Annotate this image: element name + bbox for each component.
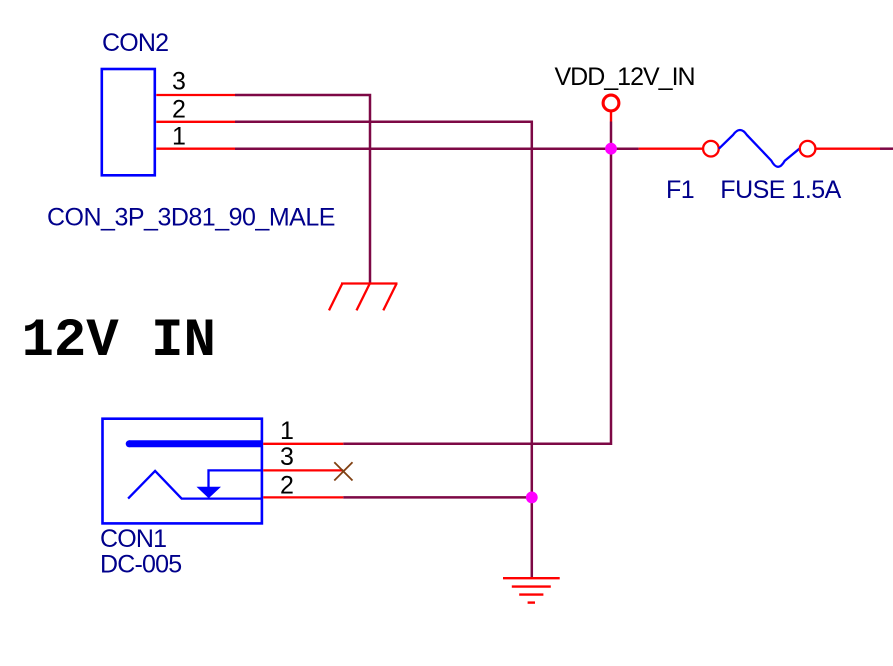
CON1 pin 2 stub: [263, 496, 343, 498]
svg-text:1: 1: [172, 123, 186, 151]
CON1 barrel contact zigzag (pin 2): [128, 471, 263, 499]
svg-text:2: 2: [172, 96, 186, 124]
svg-text:CON2: CON2: [102, 29, 168, 57]
CON1 pin 3 stub: [263, 469, 343, 471]
CON2 pin 3 stub: [156, 94, 235, 96]
CON1 center pin bar (pin 1): [129, 440, 263, 447]
power symbol VDD_12V_IN circle: [603, 95, 619, 111]
wire fuse input red segment: [639, 148, 702, 150]
svg-text:1: 1: [280, 417, 294, 445]
CON1 switch contact line (pin 3): [209, 470, 264, 488]
wire VDD junction down to CON1 pin1: [343, 149, 611, 444]
svg-text:CON_3P_3D81_90_MALE: CON_3P_3D81_90_MALE: [47, 204, 335, 232]
wire VDD power red stub: [610, 111, 612, 122]
svg-text:12V IN: 12V IN: [22, 311, 216, 372]
no-connect X on CON1 pin 3: [334, 462, 352, 480]
svg-text:CON1: CON1: [100, 525, 166, 553]
wire CON2 pin2 to signal ground: [235, 122, 532, 578]
CON1 switch arrow head: [197, 487, 222, 498]
fuse F1 left terminal: [703, 141, 719, 157]
wire CON2 pin3 to chassis ground: [235, 95, 370, 284]
svg-text:3: 3: [280, 443, 294, 471]
CON2 pin 2 stub: [156, 121, 235, 123]
CON1 pin 1 stub: [263, 443, 343, 445]
svg-text:2: 2: [280, 471, 294, 499]
svg-text:DC-005: DC-005: [100, 551, 181, 579]
wire CON1 pin2 to ground junction: [343, 496, 532, 499]
chassis ground symbol: [329, 284, 398, 311]
connector CON2 body: [102, 69, 155, 175]
svg-text:F1: F1: [666, 176, 694, 204]
signal ground symbol: [503, 578, 560, 602]
junction VDD node: [605, 143, 617, 155]
wire fuse output right edge: [880, 147, 893, 150]
wire VDD power stub: [610, 122, 613, 149]
junction ground node: [526, 492, 538, 504]
fuse F1 element: [719, 130, 800, 167]
wire fuse output red segment: [817, 148, 881, 150]
svg-text:3: 3: [172, 68, 186, 96]
fuse F1 right terminal: [800, 141, 816, 157]
CON2 pin 1 stub: [156, 148, 235, 150]
svg-text:FUSE 1.5A: FUSE 1.5A: [720, 176, 841, 204]
connector CON1 body: [103, 419, 262, 524]
wire CON2 pin1 to fuse (VDD net): [235, 147, 639, 150]
svg-text:VDD_12V_IN: VDD_12V_IN: [555, 63, 695, 91]
